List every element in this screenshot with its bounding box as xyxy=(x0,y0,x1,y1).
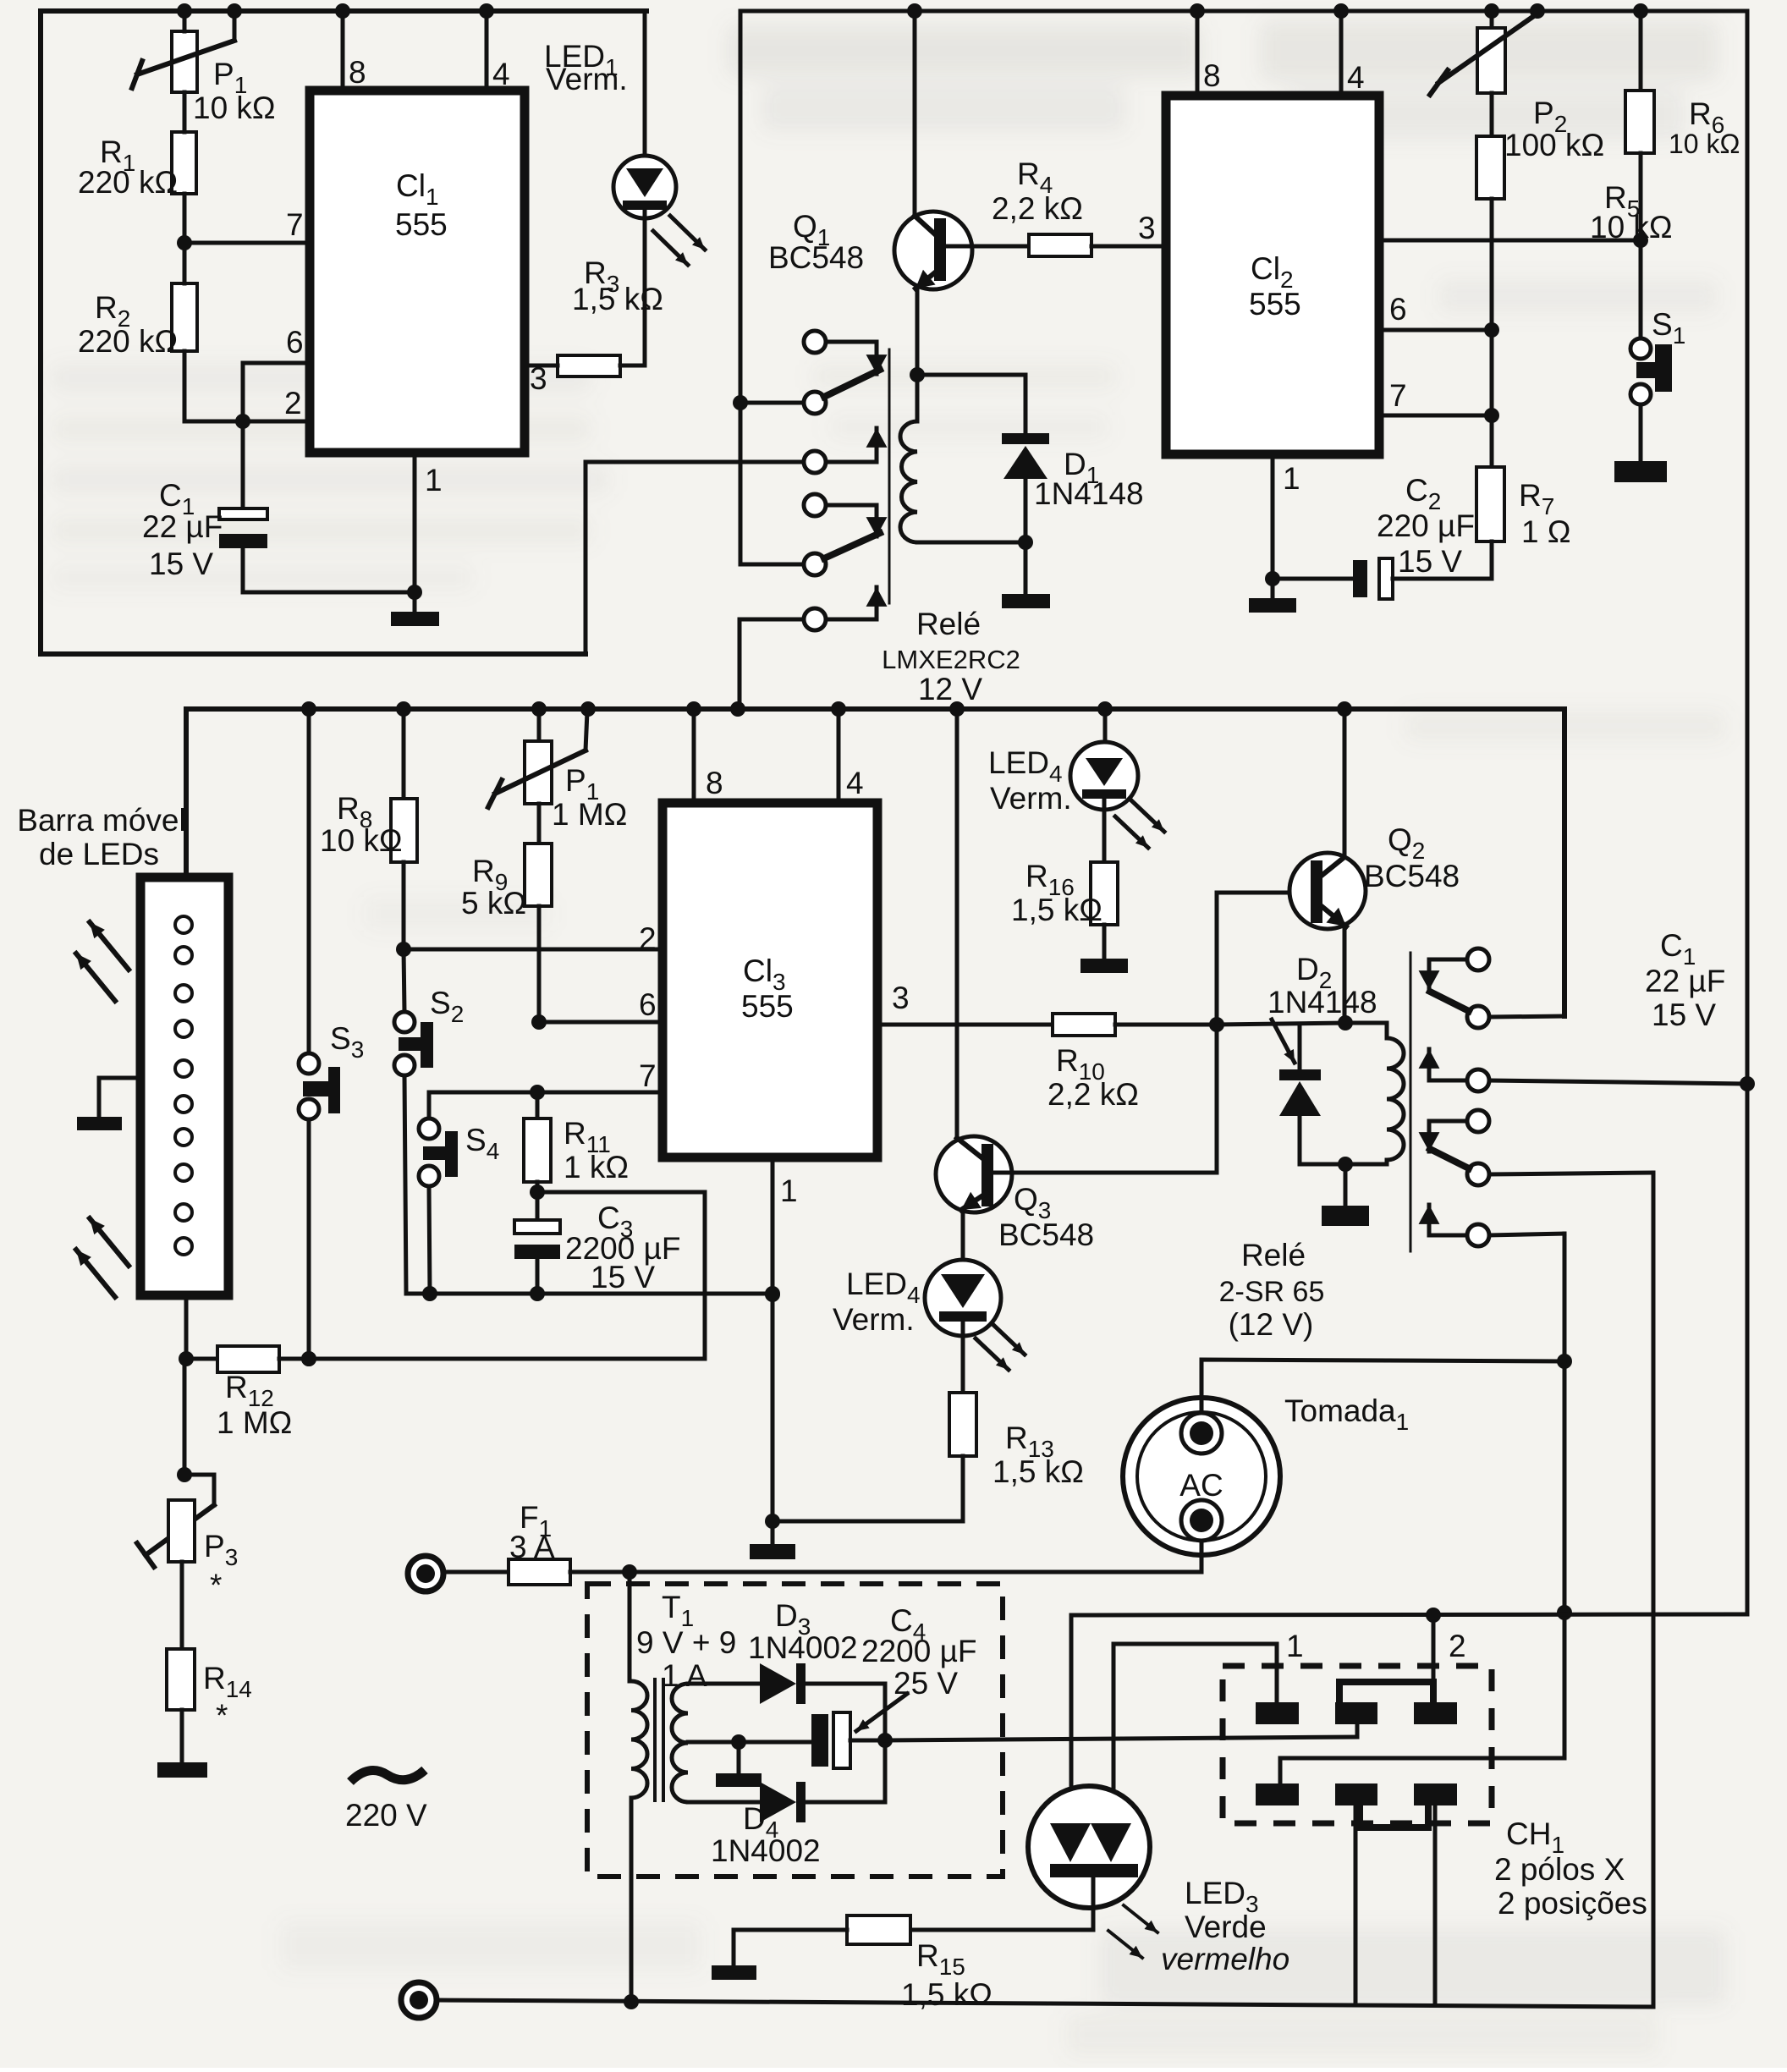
wire pin4 CI1 xyxy=(479,3,494,91)
label pin 7 CI2 xyxy=(1389,378,1407,413)
svg-text:1,5 kΩ: 1,5 kΩ xyxy=(572,282,663,316)
relay arm c5 xyxy=(804,533,880,575)
svg-text:4: 4 xyxy=(1347,60,1365,95)
relay contact c3 xyxy=(801,428,887,473)
svg-text:Verde: Verde xyxy=(1185,1910,1267,1944)
transistor Q2 xyxy=(1217,707,1366,1023)
svg-text:*: * xyxy=(210,1568,222,1602)
resistor R10 xyxy=(1053,1014,1115,1036)
svg-text:2200 µF: 2200 µF xyxy=(861,1634,977,1668)
label P1b 1 MΩ xyxy=(552,763,627,832)
wire pin3 line CI3 xyxy=(877,1023,1053,1027)
svg-text:3: 3 xyxy=(892,981,910,1015)
op-amp U3 IC CI3 555 box xyxy=(663,803,877,1157)
diode D4 xyxy=(760,1782,885,1822)
relay arm c2 xyxy=(804,370,880,414)
wire r6 down xyxy=(1557,1234,1572,1758)
svg-text:2: 2 xyxy=(639,921,657,956)
label CH1 terminal 1 xyxy=(1286,1629,1304,1663)
label R8 10 kΩ xyxy=(320,791,403,858)
label CI1 555 xyxy=(395,168,448,242)
wire LED bar bottom xyxy=(179,1295,194,1366)
svg-text:1N4002: 1N4002 xyxy=(711,1833,821,1868)
svg-text:6: 6 xyxy=(286,325,304,360)
svg-text:vermelho: vermelho xyxy=(1161,1942,1289,1976)
label P2 100 kΩ xyxy=(1504,96,1604,162)
ground D1 xyxy=(1002,542,1050,608)
ground pin1 CI1 xyxy=(391,592,439,626)
svg-text:1: 1 xyxy=(425,463,443,497)
wire R9 to pin6 xyxy=(531,906,547,1030)
wire right border xyxy=(1746,11,1750,1614)
wire LED1 to R3 xyxy=(643,210,647,365)
label 220 V xyxy=(345,1770,427,1833)
label R14 * xyxy=(203,1661,252,1733)
wire pin2 line CI3 xyxy=(404,948,663,952)
label AC xyxy=(1179,1468,1223,1503)
label LED4 Verm. top xyxy=(988,745,1072,816)
wire pin1 CI1 xyxy=(413,453,417,592)
label pin 3 CI2 xyxy=(1138,211,1156,245)
capacitor C2 xyxy=(1273,558,1492,599)
capacitor C4 xyxy=(739,1712,893,1768)
svg-text:1 MΩ: 1 MΩ xyxy=(217,1405,292,1440)
transformer T1 secondary xyxy=(672,1684,760,1802)
svg-text:3: 3 xyxy=(1138,211,1156,245)
svg-text:2 posições: 2 posições xyxy=(1498,1886,1647,1921)
LED bar box xyxy=(140,877,228,1295)
svg-text:BC548: BC548 xyxy=(998,1217,1094,1252)
label S3 xyxy=(330,1021,364,1063)
label D1 1N4148 xyxy=(1034,447,1144,511)
LED LED4 bottom xyxy=(925,1260,1025,1393)
power box dashed xyxy=(587,1584,1003,1877)
wire line to CH1 pole2 xyxy=(1071,1608,1746,1623)
svg-text:10 kΩ: 10 kΩ xyxy=(1590,210,1673,245)
resistor R2 xyxy=(172,243,197,351)
relay contact r4 xyxy=(1419,1110,1489,1151)
label R3 1,5 kΩ xyxy=(572,256,663,316)
resistor R9 xyxy=(525,804,552,906)
node R11 C3 junction xyxy=(530,1182,545,1200)
label pin 6 CI2 xyxy=(1389,292,1407,327)
svg-text:AC: AC xyxy=(1179,1468,1223,1503)
wire R2 to pin2 line xyxy=(183,351,187,421)
label CH1 2 pólos X 2 posições xyxy=(1494,1816,1647,1921)
LED bar LEDs xyxy=(175,916,192,1255)
switch S2 xyxy=(394,949,433,1075)
resistor R16 xyxy=(1091,862,1118,925)
svg-text:1N4148: 1N4148 xyxy=(1267,985,1377,1020)
label Tomada1 xyxy=(1284,1393,1409,1435)
svg-text:15 V: 15 V xyxy=(149,547,213,581)
svg-text:1: 1 xyxy=(780,1173,798,1208)
label R10 2,2 kΩ xyxy=(1047,1043,1139,1112)
svg-text:22 µF: 22 µF xyxy=(1645,964,1725,998)
diode D3 xyxy=(760,1663,885,1704)
label R12 1 MΩ xyxy=(217,1370,292,1440)
svg-text:10 kΩ: 10 kΩ xyxy=(1669,129,1740,159)
label R11 1 kΩ xyxy=(564,1116,629,1184)
resistor R3 xyxy=(525,355,645,376)
wire pin4 CI3 xyxy=(837,709,841,803)
potentiometer P3 xyxy=(137,1359,214,1567)
svg-text:6: 6 xyxy=(639,987,657,1022)
wire CH1 B-prime to AC bottom xyxy=(1354,1807,1358,2001)
label R1 220 kΩ xyxy=(78,135,178,200)
svg-text:10 kΩ: 10 kΩ xyxy=(320,823,403,858)
label CH1 terminal 2 xyxy=(1449,1629,1466,1663)
wire pin6 stub CI2 xyxy=(1379,322,1499,338)
ground CI2 pin1 xyxy=(1249,579,1296,613)
wire R13 to pin1 line xyxy=(773,1456,963,1521)
svg-text:15 V: 15 V xyxy=(1652,998,1716,1032)
svg-text:Verm.: Verm. xyxy=(833,1302,915,1337)
svg-text:2: 2 xyxy=(284,386,302,420)
svg-text:1 A: 1 A xyxy=(662,1658,707,1693)
wire pin3 right stub CI2 xyxy=(1379,233,1648,248)
relay contact r3 xyxy=(1419,1049,1755,1091)
wire S2 to bottom line xyxy=(404,1075,406,1294)
svg-text:2,2 kΩ: 2,2 kΩ xyxy=(992,191,1083,226)
svg-text:3: 3 xyxy=(530,361,547,396)
svg-text:1,5 kΩ: 1,5 kΩ xyxy=(901,1977,992,2012)
svg-text:220 kΩ: 220 kΩ xyxy=(78,324,178,359)
ground R15 xyxy=(712,1930,756,1980)
svg-text:1: 1 xyxy=(1286,1629,1304,1663)
transformer core xyxy=(655,1679,663,1800)
svg-text:555: 555 xyxy=(741,989,794,1024)
resistor R14 xyxy=(167,1562,195,1710)
label LED4 Verm. bottom xyxy=(833,1267,921,1337)
diode D1 xyxy=(1002,375,1049,550)
wire pin1 CI2 xyxy=(1265,454,1280,586)
inductor relay2 coil xyxy=(1345,1023,1404,1164)
wire Tomada bottom xyxy=(1200,1541,1204,1572)
wire C1 to pin1 ground xyxy=(243,585,422,600)
label D4 1N4002 xyxy=(711,1801,821,1868)
resistor R6 xyxy=(1625,3,1654,153)
LED bar arrows bottom xyxy=(76,1218,129,1297)
wire pin6 line CI3 xyxy=(539,1020,663,1025)
CH1 top bridge xyxy=(1339,1682,1433,1701)
label C4 2200 µF 25 V xyxy=(856,1603,977,1731)
wire pin7 line CI3 xyxy=(429,1085,663,1100)
resistor R5 xyxy=(1476,93,1504,199)
svg-text:BC548: BC548 xyxy=(1364,859,1460,893)
wire pin2/bottom-left riser to relay c3 xyxy=(586,462,801,654)
label R15 1,5 kΩ xyxy=(901,1938,992,2012)
ground pin1 CI3 xyxy=(750,1521,795,1559)
AC terminal bottom xyxy=(401,1982,437,2018)
svg-text:10 kΩ: 10 kΩ xyxy=(193,91,276,125)
LED LED4 top xyxy=(1070,709,1164,862)
potentiometer P1 xyxy=(132,3,242,92)
wire CH1 pole1 from LED3 xyxy=(1113,1644,1277,1702)
svg-text:1 MΩ: 1 MΩ xyxy=(552,797,627,832)
wire pin2 line xyxy=(184,414,310,429)
label pin 3 CI3 xyxy=(892,981,910,1015)
label R16 1,5 kΩ xyxy=(1011,859,1102,927)
label LED1 Verm. xyxy=(544,39,628,96)
svg-text:1,5 kΩ: 1,5 kΩ xyxy=(992,1454,1084,1489)
svg-text:2-SR 65: 2-SR 65 xyxy=(1219,1276,1325,1308)
node rail2 junctions xyxy=(301,701,1352,717)
wire CH1 C-prime to r5 line xyxy=(1433,1807,1438,2003)
svg-text:1,5 kΩ: 1,5 kΩ xyxy=(1011,893,1102,927)
label C1 22 µF 15 V xyxy=(142,478,223,581)
svg-text:4: 4 xyxy=(846,766,864,800)
CH1 contacts top row xyxy=(1256,1702,1457,1724)
resistor R12 xyxy=(186,1346,705,1372)
svg-text:555: 555 xyxy=(395,207,448,242)
label Q1 BC548 xyxy=(768,209,864,275)
resistor R13 xyxy=(949,1393,976,1456)
label R5 10 kΩ xyxy=(1590,180,1673,245)
resistor R15 xyxy=(734,1915,1093,1944)
AC socket Tomada1 xyxy=(1123,1398,1280,1555)
wire Tomada top to r6 line xyxy=(1201,1360,1564,1413)
wire LED bar tap ground xyxy=(77,1078,140,1130)
wire bottom line S2 S4 C3 pin1 xyxy=(406,1286,780,1301)
node R8 pin2 junction xyxy=(396,862,411,957)
node Q1 emitter coil junction xyxy=(910,367,925,382)
label CI2 555 xyxy=(1249,251,1301,322)
svg-text:220 kΩ: 220 kΩ xyxy=(78,165,178,200)
svg-text:1N4002: 1N4002 xyxy=(748,1630,858,1665)
svg-text:*: * xyxy=(216,1698,228,1733)
svg-text:LMXE2RC2: LMXE2RC2 xyxy=(882,645,1020,674)
wire pin6 stub xyxy=(243,363,310,421)
label pin 1 CI3 xyxy=(780,1173,798,1208)
label pin 7 xyxy=(286,207,304,242)
svg-text:555: 555 xyxy=(1249,287,1301,322)
wire CH1 A-prime stem xyxy=(1280,1758,1564,1783)
svg-text:Verm.: Verm. xyxy=(546,62,628,96)
fuse F1 xyxy=(443,1559,1201,1585)
relay contact c6 xyxy=(740,587,887,709)
svg-text:Relé: Relé xyxy=(916,607,981,641)
label R4 2,2 kΩ xyxy=(992,157,1083,226)
wire R1 to node7 xyxy=(183,194,187,243)
label pin 4 CI3 xyxy=(846,766,864,800)
relay contact c1 xyxy=(804,331,887,374)
relay1 frame bar xyxy=(888,349,891,603)
wire rectifier output xyxy=(885,1684,1357,1802)
wire base riser xyxy=(1215,893,1219,1173)
svg-text:15 V: 15 V xyxy=(1398,544,1462,579)
relay arm r2 xyxy=(1430,992,1564,1028)
wire pin1 CI3 xyxy=(765,1157,780,1529)
label P1 10 kΩ xyxy=(193,57,276,125)
label pin 8 CI3 xyxy=(706,766,723,800)
LED LED3 xyxy=(1028,1615,1157,1958)
svg-text:12 V: 12 V xyxy=(918,672,982,706)
node center tap ground xyxy=(716,1734,762,1787)
wire CH1 pole2 drop xyxy=(1432,1615,1436,1702)
label pin 8 CI2 xyxy=(1203,58,1221,93)
label Q3 BC548 xyxy=(998,1182,1094,1252)
ground S1 xyxy=(1614,404,1667,482)
label C2 220 µF 15 V xyxy=(1377,473,1475,579)
wire bottom AC line xyxy=(437,2000,1653,2007)
wire pin8 CI1 xyxy=(335,3,350,91)
label pin 1 CI2 xyxy=(1283,461,1300,496)
label R2 220 kΩ xyxy=(78,290,178,359)
resistor R11 xyxy=(524,1092,551,1182)
label pin 8 CI1 xyxy=(349,55,366,90)
label Q2 BC548 xyxy=(1364,822,1460,893)
resistor R4 xyxy=(1029,234,1166,256)
op-amp U2 IC CI2 555 box xyxy=(1166,96,1379,454)
svg-text:(12 V): (12 V) xyxy=(1229,1307,1314,1342)
svg-text:2: 2 xyxy=(1449,1629,1466,1663)
LED bar arrows top xyxy=(76,922,129,1001)
capacitor C1 xyxy=(219,421,267,592)
resistor R8 xyxy=(391,709,417,862)
resistor R7 xyxy=(1476,467,1504,579)
diode D2 xyxy=(1279,1025,1353,1172)
label pin 6 xyxy=(286,325,304,360)
label S4 xyxy=(465,1123,499,1164)
svg-text:9 V + 9: 9 V + 9 xyxy=(636,1625,736,1660)
relay contact c4 xyxy=(804,494,887,536)
label P3 * xyxy=(204,1529,238,1602)
CH1 bottom bridge xyxy=(1360,1807,1428,1827)
svg-text:2,2 kΩ: 2,2 kΩ xyxy=(1047,1077,1139,1112)
svg-text:3 A: 3 A xyxy=(509,1530,555,1564)
label pin 4 CI1 xyxy=(492,57,510,91)
label pin 4 CI2 xyxy=(1347,60,1365,95)
op-amp U1 IC CI1 555 box xyxy=(310,91,525,453)
label R7 1 Ω xyxy=(1519,478,1571,549)
label R6 10 kΩ xyxy=(1669,96,1740,159)
wire pin8 CI3 xyxy=(692,709,696,803)
relay contact r6 xyxy=(1419,1205,1564,1246)
label pin 2 xyxy=(284,386,302,420)
svg-text:220 µF: 220 µF xyxy=(1377,508,1475,543)
LED LED1 xyxy=(613,11,705,265)
transistor Q3 xyxy=(936,709,1217,1261)
wire rail2 to r2 xyxy=(1562,709,1567,1016)
label R13 1,5 kΩ xyxy=(992,1421,1084,1489)
svg-text:Verm.: Verm. xyxy=(990,781,1072,816)
label CI3 555 xyxy=(741,954,794,1024)
label F1 3 A xyxy=(509,1500,555,1564)
inductor relay1 coil xyxy=(900,375,1025,542)
svg-text:Barra móvel: Barra móvel xyxy=(17,803,185,838)
label LED3 Verde vermelho xyxy=(1161,1876,1289,1976)
CH1 contacts bottom row xyxy=(1256,1783,1457,1805)
ground R14 xyxy=(157,1710,207,1778)
label pin 7 CI3 xyxy=(639,1058,657,1093)
svg-text:22 µF: 22 µF xyxy=(142,509,223,544)
relay arm r5 xyxy=(1430,1149,1653,1185)
label C3 2200 µF 15 V xyxy=(565,1201,681,1294)
wire pin7 stub CI2 xyxy=(1379,408,1499,423)
label S2 xyxy=(430,986,464,1027)
svg-text:220 V: 220 V xyxy=(345,1798,427,1833)
ground relay2 D2 xyxy=(1322,1164,1369,1226)
label pin 2 CI3 xyxy=(639,921,657,956)
wire R5 to R7 xyxy=(1490,199,1494,467)
wire C3 node to R12 line xyxy=(537,1192,705,1359)
svg-text:8: 8 xyxy=(706,766,723,800)
label D3 1N4002 xyxy=(748,1598,858,1665)
label pin 1 CI1 xyxy=(425,463,443,497)
label C1 22 µF 15 V right xyxy=(1645,928,1725,1032)
label pin 6 CI3 xyxy=(639,987,657,1022)
svg-text:100 kΩ: 100 kΩ xyxy=(1504,128,1604,162)
svg-text:15 V: 15 V xyxy=(591,1260,655,1294)
switch CH1 dashed box xyxy=(1223,1666,1492,1823)
ground R16 xyxy=(1080,925,1128,973)
svg-text:7: 7 xyxy=(1389,378,1407,413)
svg-text:8: 8 xyxy=(1203,58,1221,93)
potentiometer P1b 1M xyxy=(488,709,587,807)
svg-text:1N4148: 1N4148 xyxy=(1034,476,1144,511)
wire R10 to riser xyxy=(1115,1015,1387,1032)
label S1 xyxy=(1652,307,1685,349)
label Relé LMXE2RC2 12 V xyxy=(882,607,1020,706)
wire CH1 B stem to C4 line xyxy=(1355,1724,1360,1737)
wire r5 to CH1 xyxy=(1652,1173,1656,2007)
relay contact r1 xyxy=(1419,948,1489,990)
wire rail2 12V xyxy=(186,709,1564,877)
potentiometer P2 xyxy=(1430,3,1545,95)
svg-text:de LEDs: de LEDs xyxy=(39,837,159,871)
wire pin4 CI2 xyxy=(1333,3,1349,96)
node relay c2 tap xyxy=(733,395,801,410)
wire top-left box border xyxy=(41,11,646,654)
switch S3 xyxy=(299,709,340,1366)
switch S1 xyxy=(1630,338,1672,404)
label pin 3 CI1 xyxy=(530,361,547,396)
svg-text:1: 1 xyxy=(1283,461,1300,496)
wire R6 to S1 xyxy=(1639,153,1643,338)
label Barra móvel de LEDs xyxy=(17,803,185,871)
svg-text:6: 6 xyxy=(1389,292,1407,327)
svg-text:BC548: BC548 xyxy=(768,240,864,275)
svg-text:8: 8 xyxy=(349,55,366,90)
wire top rail xyxy=(740,9,1747,14)
wire pin8 CI2 xyxy=(1190,3,1205,96)
label T1 9V+9 1A xyxy=(636,1590,736,1693)
svg-text:1 Ω: 1 Ω xyxy=(1521,514,1571,549)
svg-text:4: 4 xyxy=(492,57,510,91)
label D2 1N4148 xyxy=(1267,952,1377,1063)
transformer T1 primary xyxy=(624,1572,647,2009)
label Relé 2-SR 65 (12 V) xyxy=(1219,1238,1325,1342)
svg-text:7: 7 xyxy=(639,1058,657,1093)
capacitor C3 xyxy=(514,1192,560,1294)
svg-text:1 kΩ: 1 kΩ xyxy=(564,1150,629,1184)
label R9 5 kΩ xyxy=(461,854,526,921)
transistor Q1 xyxy=(894,3,1029,375)
svg-text:2 pólos X: 2 pólos X xyxy=(1494,1852,1625,1887)
svg-text:7: 7 xyxy=(286,207,304,242)
svg-text:5 kΩ: 5 kΩ xyxy=(461,886,526,921)
node pin7 junction xyxy=(177,235,310,250)
AC terminal top xyxy=(408,1556,443,1591)
relay2 frame bar xyxy=(1410,953,1412,1251)
switch S4 xyxy=(419,1092,458,1294)
svg-text:Relé: Relé xyxy=(1241,1238,1306,1272)
wire second block left border xyxy=(740,11,801,564)
resistor R1 xyxy=(172,92,196,194)
